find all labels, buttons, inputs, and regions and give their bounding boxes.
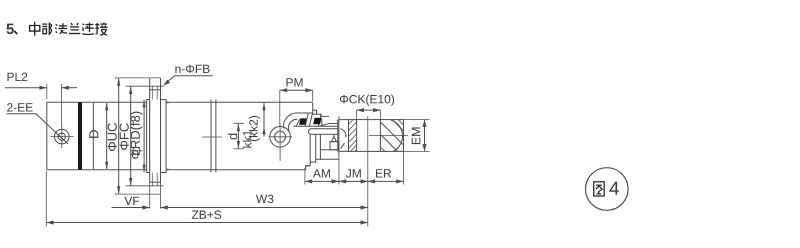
diagonals — [381, 122, 403, 144]
bleed valve — [330, 134, 338, 150]
figure 4 circle — [586, 168, 629, 211]
rod end face line — [367, 116, 369, 227]
dimension PhiRD(f8) — [130, 100, 145, 173]
兰 — [69, 23, 80, 34]
centerline — [369, 135, 408, 137]
label n-PhiFB with leader arrow — [163, 65, 213, 86]
dimension D — [89, 103, 108, 170]
dimension PM — [280, 78, 313, 125]
dimension PhiUC — [108, 78, 161, 194]
dimension d — [228, 123, 244, 149]
dimension PhiCK(E10) — [340, 95, 394, 120]
dimension kk1 (kk2) — [243, 103, 266, 148]
dimension EM — [404, 120, 430, 152]
wrench flat bar — [311, 128, 338, 130]
dimension VF — [112, 197, 150, 210]
bearing circle — [390, 120, 403, 152]
dimension ZB+S — [46, 171, 368, 227]
flange pilot ring left — [147, 100, 150, 173]
dimensions AM JM ER — [305, 151, 404, 184]
head port circle — [269, 124, 293, 162]
head steps top — [313, 102, 329, 116]
title 5、中部法兰连接 — [6, 22, 107, 36]
dimension PhiFC — [120, 86, 164, 186]
flange right ring — [161, 100, 169, 173]
port 2-EE circle — [51, 126, 74, 149]
flange — [150, 78, 161, 208]
tube ring joint — [210, 100, 212, 173]
head steps bottom staircase — [306, 134, 339, 169]
dimension PL2 — [5, 73, 77, 127]
tube body — [47, 100, 312, 173]
中 — [30, 22, 40, 36]
连 — [82, 23, 94, 35]
label 2-EE with leader — [7, 103, 69, 144]
cap joint — [92, 102, 94, 169]
black band on cap — [78, 102, 82, 169]
hatch wall left — [349, 120, 357, 152]
rod eye body — [349, 120, 409, 152]
图 glyph — [594, 182, 605, 196]
small port circle under tube — [131, 147, 143, 154]
法 — [55, 23, 67, 34]
部 — [42, 23, 51, 36]
elbow fitting / seal band — [284, 113, 338, 131]
locknut — [338, 117, 349, 156]
dimension W3 — [161, 195, 368, 210]
rod — [309, 124, 338, 135]
接 — [95, 23, 107, 36]
